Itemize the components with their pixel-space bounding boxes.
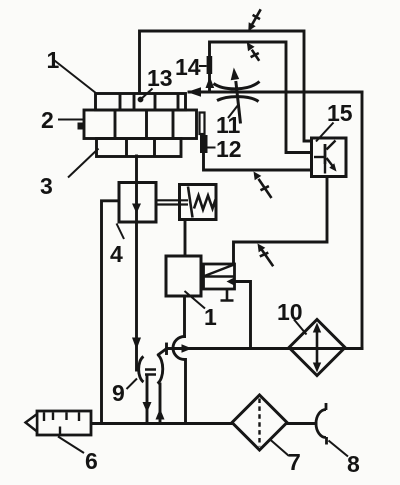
wire: check valve bottom down to bottom bus — [184, 360, 187, 424]
label pointer 8 — [329, 441, 349, 457]
check valve seat bar — [165, 344, 168, 354]
svg-text:9: 9 — [112, 380, 125, 406]
throttle upper arc — [214, 82, 260, 89]
transistor base lead — [314, 156, 325, 158]
wire: vertical below restrictor 14 — [208, 74, 211, 92]
ejector throat bars — [145, 370, 156, 375]
brick row 3 (bottom) — [97, 139, 182, 157]
label pointer 15 — [316, 123, 334, 142]
heat exchanger 10 double arrow line — [316, 329, 319, 366]
heat exchanger 10 arrow down head — [313, 363, 321, 373]
arrowhead: down to bottom bus from ejector throat — [143, 402, 152, 413]
temperature sensor 12 (black bar) — [200, 135, 208, 153]
ejector 9 right nozzle — [158, 355, 163, 384]
coupling 8 top tick — [325, 403, 328, 410]
spring box diaphragm — [188, 187, 193, 218]
wire: main horizontal air line with left arrowhead — [189, 91, 362, 94]
piston rod double line — [157, 200, 189, 204]
electric signal arrow A3 (into solenoid control line) — [260, 250, 273, 266]
svg-text:7: 7 — [288, 449, 301, 475]
arrowhead: suction line pointing right after check valve — [182, 344, 193, 353]
label pointer 3 — [68, 149, 99, 178]
label pointer 10 — [294, 320, 307, 335]
coupling 8 bottom tick — [325, 437, 328, 445]
arrowhead: main line pointing left at radiator — [187, 87, 201, 96]
arrowhead: up from bottom bus into ejector — [156, 409, 165, 420]
svg-text:12: 12 — [216, 136, 242, 162]
radiator / brick block rows — [84, 94, 197, 157]
electric signal arrow A1 (top, into outer loop) — [252, 9, 261, 24]
filter 7 diamond — [232, 395, 287, 450]
svg-text:15: 15 — [327, 100, 353, 126]
label pointer 13 — [141, 89, 153, 100]
control unit 15 box — [312, 138, 347, 177]
wire: filter 7 to coupling 8 — [287, 422, 316, 425]
label pointer 1 — [55, 61, 97, 94]
valve 4 body — [119, 183, 156, 223]
spring box (regulator) — [180, 185, 217, 220]
heat exchanger 10 diamond — [289, 320, 345, 376]
throttle arrow shaft — [236, 81, 241, 124]
node dot for label 13 — [138, 97, 144, 103]
wire: bottom bus muffler 6 to filter 7 — [91, 422, 232, 425]
solenoid lower-cell notch — [227, 278, 235, 286]
transistor collector — [327, 141, 336, 150]
svg-text:3: 3 — [40, 173, 53, 199]
wire: valve 4 left port down the left side to bottom bus — [102, 201, 120, 424]
brick row 3 dividers — [127, 139, 155, 157]
brick row 2 (middle) — [84, 110, 197, 139]
label pointer 6 — [58, 437, 84, 454]
wire: sensor 12 line down and right to control unit 15 — [204, 153, 312, 171]
wire: ejector outlet curve to suction line — [159, 349, 167, 355]
svg-text:1: 1 — [204, 304, 217, 330]
check valve arc — [173, 337, 185, 360]
arrowhead: up into restrictor 14 — [206, 77, 215, 89]
svg-text:1: 1 — [47, 47, 60, 73]
solenoid diagonal — [205, 265, 234, 276]
label pointer 14 — [199, 65, 207, 67]
electric signal arrow A2 (into inner loop) — [251, 50, 260, 61]
wire: radiator bottom to valve 4 and down to ejector 9 — [135, 156, 138, 370]
wire: bottom bus up to ejector right nozzle — [159, 384, 162, 424]
wire: inner control loop rectangle via restrictor 14 — [210, 42, 312, 153]
svg-text:2: 2 — [41, 107, 54, 133]
label pointer 1 (valve) — [185, 291, 206, 309]
label pointer 11 — [228, 105, 239, 119]
svg-text:10: 10 — [277, 299, 303, 325]
heat exchanger 10 arrow up head — [313, 323, 321, 333]
svg-text:4: 4 — [110, 241, 123, 267]
muffler 6 body — [37, 411, 91, 435]
wire: right-side vertical down to heat exchanger 10 — [361, 92, 364, 349]
transistor bottom tick — [324, 164, 326, 174]
label pointer 7 — [270, 439, 290, 456]
throttle lower arc — [217, 97, 259, 102]
svg-text:11: 11 — [216, 112, 241, 138]
svg-text:14: 14 — [175, 54, 201, 80]
muffler baffle ticks — [44, 413, 79, 435]
transistor emitter arrowhead — [329, 163, 336, 171]
fan / variable throttle 11 — [214, 81, 260, 124]
filter 7 dashed element — [258, 399, 260, 447]
coupling 8 arc — [316, 410, 326, 438]
transistor emitter — [327, 158, 334, 167]
electric signal arrow A4 (into sensor line) — [259, 179, 272, 198]
transistor base bar — [324, 144, 327, 164]
wire: solenoid right port to suction line — [235, 282, 251, 349]
muffler 6 nose triangle — [26, 414, 38, 432]
exhaust T symbol — [221, 289, 234, 301]
label pointer 2 — [58, 119, 84, 121]
brick row 1 dividers — [120, 94, 178, 111]
label pointer 4 — [117, 224, 125, 240]
spring zigzag — [194, 196, 216, 210]
wire: control unit 15 output down and left to solenoid of valve 1 — [234, 177, 328, 265]
svg-text:8: 8 — [347, 451, 360, 477]
wire: valve body 1 bottom down to check valve — [183, 296, 186, 337]
brick row 1 (top) — [96, 94, 186, 111]
valve body 1 (large box) — [166, 256, 201, 296]
svg-text:6: 6 — [85, 448, 98, 474]
label pointer 9 — [127, 379, 138, 390]
left port tick on radiator — [78, 123, 84, 130]
arrowhead: down into ejector 9 — [132, 338, 141, 350]
arrowhead: down into valve 4 — [132, 204, 141, 214]
svg-text:13: 13 — [147, 65, 173, 91]
solenoid divider — [204, 275, 235, 277]
brick row 2 dividers — [115, 110, 173, 139]
restrictor 14 (black bar) — [207, 56, 213, 74]
wire: ejector throat down to bottom bus — [146, 375, 149, 424]
wire: radiator top to outer control loop rectangle — [140, 31, 312, 141]
label pointer 12 — [208, 147, 216, 149]
wire: spring box bottom to valve body 1 — [184, 219, 187, 256]
wire: suction line from ejector outlet to heat exchanger 10 and right vertical — [167, 347, 363, 350]
throttle arrow head — [231, 68, 240, 81]
solenoid attachment box — [204, 264, 235, 289]
right port of radiator — [200, 113, 205, 135]
ejector 9 left nozzle — [139, 357, 144, 383]
